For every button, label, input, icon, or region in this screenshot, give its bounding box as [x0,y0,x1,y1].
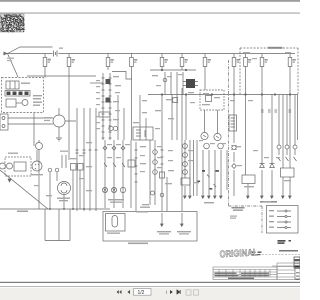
connector bar segments [7,92,29,96]
disabled icon 2 [194,290,199,295]
wire x45 fuse drop [44,70,46,78]
fuse F at x=108 [107,54,109,58]
ground label [204,202,214,203]
wire x205 [204,70,206,90]
node arrow junction left [4,52,7,55]
label fuse value x=131.5 [134,59,137,61]
misc tiny labels [7,48,291,208]
lamp small box [128,160,135,167]
starter solenoid [7,163,13,169]
gauge needles [203,135,219,138]
component marks x162 [160,172,165,178]
trailer connector box [267,206,299,234]
nav first page button [117,290,122,294]
arrow feed 1 [161,213,164,226]
short fuses x62 x66 [62,155,66,168]
priority switch label [232,207,245,211]
title block right box [277,263,295,280]
starter motor M1 [0,163,6,169]
wire inside box [16,102,22,104]
wire x136 [135,142,137,211]
pin row 3 [277,221,291,223]
wire x69 long drop [68,70,70,160]
indicator diamonds [103,146,125,150]
node dots [161,69,163,71]
printed circuit box [99,112,110,117]
switch slashes [207,175,216,188]
key switch box [6,99,16,107]
ORIGINAL watermark stamp [219,247,258,260]
wire code marks [198,170,219,190]
wire starter top [36,150,38,161]
starter relay dashed box [5,157,31,176]
svg-text:1/2: 1/2 [138,290,145,296]
wire x290 [289,70,291,168]
nav last button [177,290,180,294]
wires lamps [279,95,295,156]
lamp column x185 [185,140,197,196]
page number box [134,289,152,296]
fuse F at x=234 [233,54,235,58]
wire: long diagonal to chassis bus [0,170,48,209]
wiper labels [128,231,191,244]
wires relay down [283,177,290,196]
ignition switch contact box [6,81,19,89]
toolbar top border [0,285,300,288]
connector circle [151,191,155,195]
fuse F at x=182 [181,54,183,58]
box title [260,201,277,203]
wire: branch into ignition box [8,54,19,78]
door switch plunger [112,216,118,228]
wire staircase [112,72,132,80]
ground return rect [45,209,70,241]
gauge circles pair [109,126,113,130]
wires x150 x155 [150,140,155,205]
fuse block box [133,127,153,140]
door switch sub box [106,214,126,232]
relay module box [229,115,237,131]
wires x73 x80 down [73,170,80,209]
connector codes [278,240,292,244]
wires instrument feeds [77,108,96,211]
sheet bottom border [0,282,300,283]
alternator G1 [53,115,65,127]
wire x124 [123,108,125,140]
label fuse value x=45 [48,59,51,61]
switch diagonals [278,157,297,161]
interior lamp box [103,212,197,242]
wire fan down [63,195,65,210]
gauge circles [201,132,208,139]
label fuse value x=162 [165,59,168,61]
section boundary dash-dot [229,60,263,233]
switch boxes [71,164,77,171]
wire x39 down [38,150,40,210]
ground starter [8,179,11,182]
grounds diodes [261,196,274,198]
wire y76 horizontal [27,75,96,77]
svg-text:ORIGINAL: ORIGINAL [219,247,258,260]
wire x118 [117,95,119,140]
wires gauges feeds [205,110,218,134]
wire x234 [233,70,235,196]
nav next button [170,290,173,294]
label fuse value x=69 [72,59,75,61]
diode D1 [260,164,265,168]
LHD VERSION label [268,47,283,49]
disabled icon 1 [186,290,191,295]
wires connectors down [50,172,57,209]
bus junction dots [49,208,85,210]
arrow feed 2 [181,213,184,226]
wire x272 [271,95,273,197]
grounds [184,196,192,198]
wire x140 [139,95,141,140]
alternator terminals [8,108,76,138]
lamp [163,78,167,82]
fuse F at x=262 [261,54,263,58]
switches [104,163,125,167]
coil L1 [36,143,43,150]
lamp L7 [153,170,158,175]
pin row 2 [277,216,291,218]
pin row 4 [277,227,291,229]
label fuse value x=182 [185,59,188,61]
harness connector strip [103,73,110,140]
toolbar highlight [0,287,300,288]
label fuse value x=234 [237,59,240,61]
sheet top border [0,12,300,15]
wire x146 [145,118,147,140]
ground flasher [247,196,250,198]
chassis tab label [17,211,28,213]
fan label [57,198,70,202]
lamp L5 [153,150,158,155]
chassis ground bus [0,208,110,210]
connector blocks dark [106,79,111,103]
grounds relay [282,196,292,198]
wire x283 [282,95,284,169]
label fuse value x=205 [208,59,211,61]
wire y83 [90,82,103,84]
lamp circles [102,187,107,192]
door label [107,211,148,234]
wires lamp columns [105,140,131,208]
wire: main top bus B+ [5,53,295,55]
wire: accessory bus [148,94,298,96]
fuse F at x=69 [68,54,70,58]
diamond x234 [232,164,237,169]
bulb star [232,145,236,149]
approval stamp block [0,14,25,32]
ignition labels [21,83,42,106]
dashed separator [252,254,300,256]
lamp sunburst [172,97,177,102]
key cylinder [22,100,28,106]
wire y70 [150,69,196,71]
diode D2 [270,164,275,168]
revision strip [295,269,300,280]
wire x297.5 [297,95,299,141]
fuse F at x=45 [44,54,46,58]
dropdown tick [166,291,168,295]
lamp circles top right [277,145,281,149]
window top edge [0,0,300,2]
panel label [108,199,124,203]
drawing number stamp [294,257,300,268]
label fuse value x=245.5 [248,59,251,61]
relay pins [183,82,198,86]
grounds gauges [202,196,223,198]
heater fan motor M2 [58,182,71,195]
wire flasher down [247,184,249,197]
wire: upper branch [8,47,53,54]
label fuse value x=262 [265,59,268,61]
fuse F at x=205 [204,54,206,58]
hatched connector bar [5,91,30,97]
connector circles [48,168,52,172]
relay box right [281,168,295,177]
wires gauges columns [203,150,227,196]
ground alternator [56,138,62,141]
internal light label [279,250,298,252]
label fuse value x=290 [293,59,296,61]
fuse F at x=131.5 [131,54,133,58]
LHD VERSION dashed box [240,48,298,94]
pin labels [269,210,274,228]
battery B1 [54,51,58,57]
wires mid columns [162,88,186,211]
lamp L6 [153,160,158,165]
bat symbols [251,252,262,256]
label fuse value x=108 [111,59,114,61]
title block table [213,263,300,280]
wires cluster verticals [165,72,183,95]
nav prev button [127,290,130,294]
note text [230,216,237,219]
regulator box [0,114,8,130]
wire x262 [261,70,263,196]
pin row 1 [277,210,291,212]
dashed gauges box [200,90,224,110]
fuse F at x=162 [161,54,163,58]
distributor [32,161,42,171]
wire ignition to coil [33,113,35,147]
sender box [206,96,212,102]
flasher box [242,175,255,184]
wire x245 [245,70,247,175]
connector ticks [76,150,98,153]
wire x132 [131,70,133,140]
wire title block left [272,265,294,267]
gauge circles row2 [204,143,210,149]
ignition switch assembly dashed box [2,78,44,113]
fuse F at x=290 [289,54,291,58]
connector double ticks [261,110,291,112]
toolbar background [0,286,300,300]
fuse F at x=245.5 [245,54,247,58]
ticks x136 [135,150,138,182]
relay K1 dark [186,79,195,88]
